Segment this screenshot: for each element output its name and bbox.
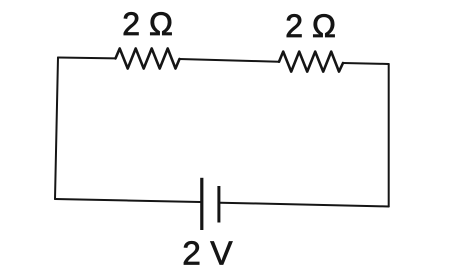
label 2 Ω (R1)	[122, 6, 173, 42]
wire between R1 and R2	[180, 59, 280, 62]
wire top-right segment	[343, 63, 389, 64]
wire top-left segment	[58, 57, 116, 60]
resistor R2	[279, 52, 343, 72]
label 2 V (battery)	[182, 235, 233, 272]
label 2 Ω (R2)	[285, 8, 336, 44]
resistor R1	[116, 49, 180, 69]
wire left side	[55, 58, 58, 200]
wire bottom-right segment	[220, 203, 388, 207]
wire right side	[388, 64, 390, 207]
svg-text:2 Ω: 2 Ω	[122, 6, 173, 42]
svg-text:2 Ω: 2 Ω	[285, 8, 336, 44]
battery V1 (2 V)	[202, 178, 219, 230]
wire bottom-left segment	[55, 199, 200, 202]
svg-text:2 V: 2 V	[182, 235, 233, 272]
